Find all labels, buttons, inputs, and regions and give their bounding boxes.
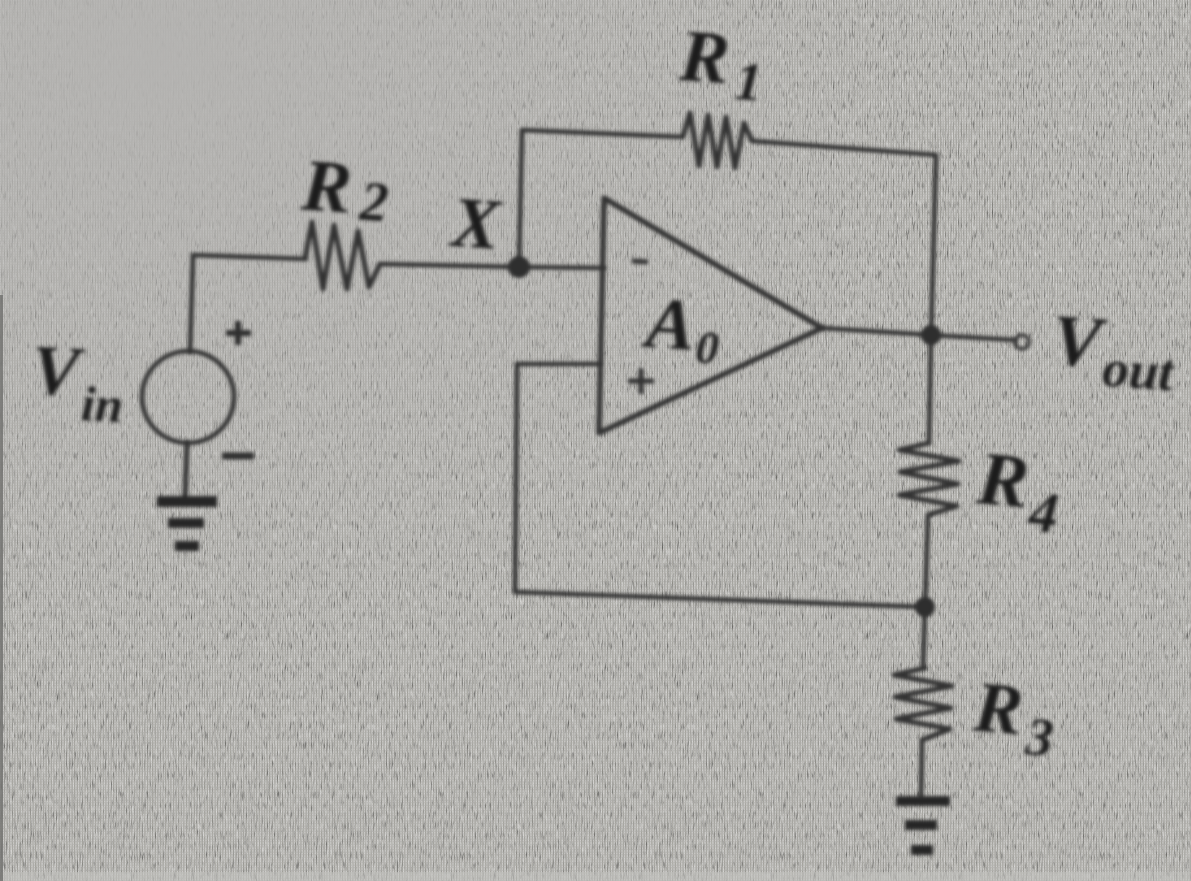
- op-amp minus sign: [632, 261, 648, 262]
- label R1: [675, 15, 766, 113]
- wire R4 to node2: [925, 515, 928, 607]
- wire right rail down to output node: [931, 155, 936, 335]
- label Vout: [1049, 299, 1180, 402]
- svg-text:out: out: [1101, 340, 1178, 403]
- wire Vin top lead: [190, 256, 193, 352]
- svg-text:R: R: [970, 666, 1026, 750]
- svg-text:4: 4: [1025, 479, 1061, 546]
- svg-text:2: 2: [357, 170, 390, 234]
- wire R2 to node X: [380, 264, 519, 267]
- label Vin: [29, 332, 127, 434]
- resistor R2: [305, 222, 380, 289]
- wire feedback left vertical: [515, 364, 517, 592]
- label R4: [972, 436, 1065, 546]
- wire node X to op-amp - input: [519, 267, 604, 268]
- wire output node to Vout terminal: [931, 335, 1015, 340]
- svg-text:0: 0: [694, 321, 721, 373]
- svg-text:X: X: [447, 182, 504, 265]
- wire node X up to top rail: [519, 130, 522, 266]
- wire top rail left segment: [522, 130, 683, 137]
- Vin minus sign: [222, 453, 254, 460]
- svg-text:R: R: [676, 15, 732, 100]
- label A0: [639, 281, 723, 373]
- op-amp plus sign: [628, 368, 654, 394]
- output node junction dot: [921, 325, 941, 345]
- bottom light strip: [0, 872, 1191, 881]
- left page edge shadow: [0, 295, 3, 881]
- svg-text:R: R: [973, 436, 1032, 524]
- wire Vin corner to R2: [193, 255, 306, 259]
- ground (Vin): [157, 496, 217, 551]
- wire op-amp output: [822, 328, 931, 335]
- svg-text:R: R: [298, 144, 354, 229]
- wire node2 down to R3: [923, 607, 925, 668]
- op-amp A0 triangle: [599, 198, 822, 433]
- label R3: [969, 666, 1059, 768]
- wire top rail right segment: [752, 141, 936, 155]
- wire to op-amp + input: [517, 362, 600, 367]
- wire output node down to R4: [929, 335, 931, 443]
- resistor R1: [683, 113, 752, 168]
- wire R3 to ground: [921, 740, 922, 797]
- svg-text:in: in: [80, 375, 125, 433]
- resistor R4: [899, 443, 959, 515]
- node2 junction dot: [915, 597, 935, 617]
- svg-text:1: 1: [733, 51, 764, 113]
- svg-text:3: 3: [1023, 706, 1056, 768]
- label R2: [298, 144, 392, 234]
- resistor R3: [894, 668, 952, 740]
- wire feedback bottom: [515, 592, 925, 607]
- svg-text:A: A: [640, 281, 698, 365]
- ground (R3): [896, 796, 950, 855]
- Vout terminal circle: [1015, 335, 1029, 349]
- wire Vin bottom lead: [185, 443, 187, 499]
- Vin plus sign: [226, 321, 251, 345]
- Vin source circle: [142, 351, 234, 443]
- node X junction dot: [508, 256, 530, 278]
